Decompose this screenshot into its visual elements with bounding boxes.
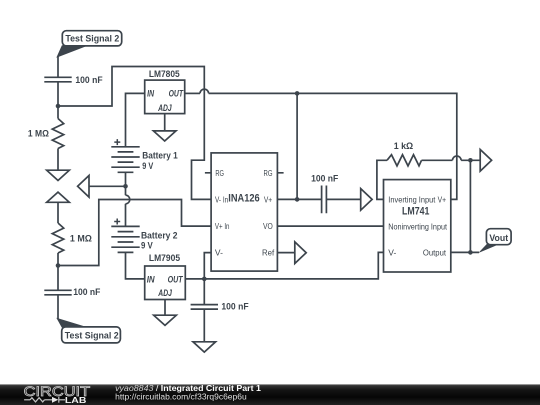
svg-text:OUT: OUT	[168, 274, 184, 284]
svg-text:Test Signal 2: Test Signal 2	[65, 331, 119, 341]
svg-text:V+: V+	[438, 195, 447, 205]
svg-text:http://circuitlab.com/cf33rq9c: http://circuitlab.com/cf33rq9c6ep6u	[115, 391, 247, 401]
svg-text:V+: V+	[264, 194, 272, 204]
svg-text:V- In: V- In	[215, 194, 228, 204]
svg-text:VO: VO	[263, 221, 273, 231]
svg-text:100 nF: 100 nF	[75, 75, 102, 86]
svg-text:RG: RG	[264, 168, 273, 178]
svg-text:100 nF: 100 nF	[311, 174, 338, 185]
svg-text:9 V: 9 V	[141, 240, 153, 251]
svg-text:Ref: Ref	[262, 248, 275, 258]
svg-text:Output: Output	[423, 248, 447, 258]
svg-text:RG: RG	[215, 168, 224, 178]
svg-text:LM7905: LM7905	[149, 253, 181, 264]
svg-text:Inverting Input: Inverting Input	[388, 195, 436, 205]
svg-text:1 kΩ: 1 kΩ	[394, 141, 414, 152]
svg-text:OUT: OUT	[169, 89, 185, 99]
svg-text:INA126: INA126	[228, 192, 259, 204]
svg-text:ADJ: ADJ	[157, 103, 172, 113]
svg-text:V+ In: V+ In	[215, 221, 230, 231]
svg-text:100 nF: 100 nF	[221, 302, 248, 313]
svg-text:ADJ: ADJ	[158, 288, 173, 298]
svg-text:Vout: Vout	[489, 233, 508, 243]
svg-text:Test Signal 2: Test Signal 2	[65, 34, 119, 44]
svg-text:LM741: LM741	[402, 206, 429, 218]
svg-text:1 MΩ: 1 MΩ	[70, 233, 92, 244]
svg-text:Battery 1: Battery 1	[142, 150, 178, 161]
svg-text:IN: IN	[147, 89, 154, 99]
svg-text:Noninverting Input: Noninverting Input	[388, 222, 447, 232]
svg-text:LAB: LAB	[65, 395, 87, 405]
svg-text:LM7805: LM7805	[149, 69, 180, 80]
svg-text:IN: IN	[147, 274, 155, 284]
svg-text:V-: V-	[388, 248, 396, 258]
svg-text:1 MΩ: 1 MΩ	[28, 129, 49, 140]
svg-text:100 nF: 100 nF	[73, 287, 100, 298]
svg-text:V-: V-	[215, 248, 223, 258]
svg-text:9 V: 9 V	[142, 161, 154, 172]
